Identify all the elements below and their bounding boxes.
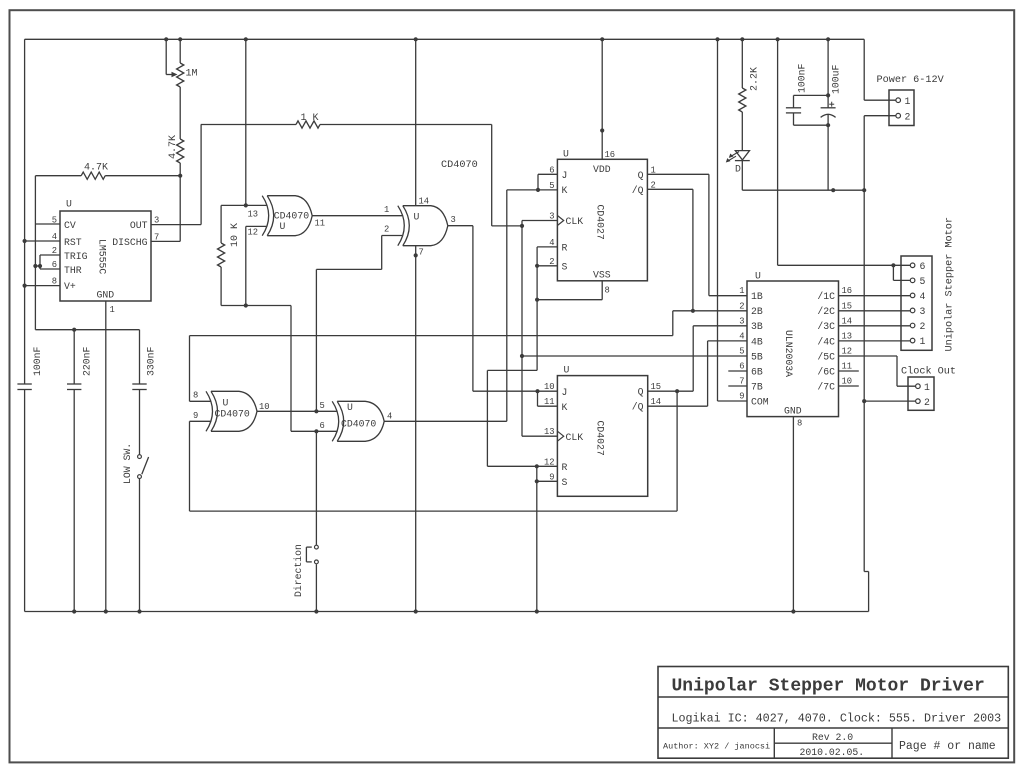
svg-text:5: 5 bbox=[320, 401, 325, 411]
svg-text:9: 9 bbox=[549, 472, 554, 482]
svg-text:1: 1 bbox=[739, 286, 744, 296]
svg-text:8: 8 bbox=[605, 286, 610, 296]
svg-text:COM: COM bbox=[751, 396, 769, 407]
svg-text:14: 14 bbox=[419, 197, 430, 207]
svg-text:6: 6 bbox=[320, 421, 325, 431]
svg-text:CD4027: CD4027 bbox=[595, 205, 606, 240]
svg-text:1: 1 bbox=[905, 96, 911, 107]
svg-text:2: 2 bbox=[739, 301, 744, 311]
svg-text:4: 4 bbox=[920, 291, 926, 302]
svg-text:Logikai IC: 4027, 4070. Clock:: Logikai IC: 4027, 4070. Clock: 555. Driv… bbox=[672, 712, 1002, 726]
svg-text:CD4070: CD4070 bbox=[441, 160, 478, 171]
svg-text:14: 14 bbox=[842, 316, 853, 326]
svg-text:Power 6-12V: Power 6-12V bbox=[877, 75, 945, 86]
svg-text:Unipolar Stepper Motor: Unipolar Stepper Motor bbox=[944, 217, 956, 352]
svg-text:RST: RST bbox=[64, 237, 82, 248]
svg-text:3: 3 bbox=[154, 216, 159, 226]
svg-text:/7C: /7C bbox=[817, 381, 835, 392]
svg-text:Clock Out: Clock Out bbox=[901, 366, 956, 378]
svg-text:4: 4 bbox=[739, 331, 744, 341]
svg-text:/Q: /Q bbox=[632, 402, 644, 413]
svg-text:4B: 4B bbox=[751, 336, 763, 347]
svg-text:GND: GND bbox=[784, 406, 802, 417]
svg-text:D: D bbox=[735, 164, 741, 175]
svg-text:7B: 7B bbox=[751, 381, 763, 392]
svg-text:1M: 1M bbox=[186, 69, 198, 80]
svg-text:10: 10 bbox=[842, 377, 853, 387]
svg-text:12: 12 bbox=[842, 347, 853, 357]
svg-text:CLK: CLK bbox=[566, 432, 584, 443]
svg-text:15: 15 bbox=[842, 301, 853, 311]
svg-text:4: 4 bbox=[387, 412, 392, 422]
svg-text:1: 1 bbox=[110, 305, 115, 315]
svg-text:Rev 2.0: Rev 2.0 bbox=[812, 732, 853, 743]
svg-text:10: 10 bbox=[259, 402, 270, 412]
svg-text:9: 9 bbox=[739, 392, 744, 402]
svg-text:CD4027: CD4027 bbox=[595, 421, 606, 456]
svg-text:GND: GND bbox=[97, 290, 115, 301]
svg-text:6: 6 bbox=[549, 165, 554, 175]
svg-text:CLK: CLK bbox=[566, 216, 584, 227]
svg-text:S: S bbox=[562, 477, 568, 488]
svg-text:/5C: /5C bbox=[817, 351, 835, 362]
svg-text:U: U bbox=[755, 271, 761, 282]
svg-text:Direction: Direction bbox=[293, 544, 304, 597]
svg-text:K: K bbox=[562, 185, 568, 196]
svg-text:Q: Q bbox=[638, 170, 644, 181]
svg-text:2: 2 bbox=[905, 112, 911, 123]
svg-text:5: 5 bbox=[549, 181, 554, 191]
svg-text:5: 5 bbox=[52, 216, 57, 226]
svg-text:100nF: 100nF bbox=[797, 63, 808, 93]
svg-text:CV: CV bbox=[64, 220, 76, 231]
svg-text:K: K bbox=[562, 402, 568, 413]
svg-text:8: 8 bbox=[193, 391, 198, 401]
svg-text:6: 6 bbox=[920, 261, 926, 272]
svg-text:U: U bbox=[223, 398, 229, 409]
svg-text:10 K: 10 K bbox=[230, 223, 241, 247]
svg-text:2.2K: 2.2K bbox=[750, 67, 761, 91]
svg-text:Unipolar Stepper Motor Driver: Unipolar Stepper Motor Driver bbox=[672, 677, 985, 697]
svg-text:9: 9 bbox=[193, 411, 198, 421]
svg-text:J: J bbox=[562, 387, 568, 398]
svg-text:OUT: OUT bbox=[130, 220, 148, 231]
svg-text:J: J bbox=[562, 170, 568, 181]
svg-text:6: 6 bbox=[739, 362, 744, 372]
svg-text:U: U bbox=[564, 365, 570, 376]
svg-text:5: 5 bbox=[920, 276, 926, 287]
svg-text:/3C: /3C bbox=[817, 321, 835, 332]
svg-text:2: 2 bbox=[651, 180, 656, 190]
svg-text:13: 13 bbox=[842, 331, 853, 341]
svg-text:100uF: 100uF bbox=[831, 64, 842, 94]
svg-text:2: 2 bbox=[384, 225, 389, 235]
svg-text:7: 7 bbox=[739, 377, 744, 387]
svg-text:6: 6 bbox=[52, 260, 57, 270]
svg-text:4.7K: 4.7K bbox=[84, 163, 108, 174]
svg-text:2: 2 bbox=[924, 397, 930, 408]
svg-text:16: 16 bbox=[842, 286, 853, 296]
svg-text:2: 2 bbox=[52, 246, 57, 256]
svg-text:/6C: /6C bbox=[817, 366, 835, 377]
svg-text:/Q: /Q bbox=[632, 185, 644, 196]
svg-text:Q: Q bbox=[638, 387, 644, 398]
svg-text:/1C: /1C bbox=[817, 291, 835, 302]
svg-text:13: 13 bbox=[248, 210, 259, 220]
svg-text:11: 11 bbox=[544, 397, 555, 407]
svg-text:LOW SW.: LOW SW. bbox=[122, 443, 133, 484]
svg-text:6B: 6B bbox=[751, 366, 763, 377]
svg-text:Page # or name: Page # or name bbox=[899, 740, 996, 753]
svg-text:1 K: 1 K bbox=[301, 113, 319, 124]
svg-text:15: 15 bbox=[651, 382, 662, 392]
svg-text:8: 8 bbox=[52, 277, 57, 287]
svg-text:3: 3 bbox=[739, 316, 744, 326]
svg-text:1: 1 bbox=[920, 336, 926, 347]
svg-text:Author: XY2 / janocsi: Author: XY2 / janocsi bbox=[663, 742, 770, 752]
svg-text:U: U bbox=[347, 402, 353, 413]
svg-text:7: 7 bbox=[419, 248, 424, 258]
svg-text:5B: 5B bbox=[751, 351, 763, 362]
svg-text:THR: THR bbox=[64, 265, 82, 276]
svg-text:V+: V+ bbox=[64, 281, 76, 292]
svg-text:1: 1 bbox=[924, 382, 930, 393]
svg-text:16: 16 bbox=[605, 150, 616, 160]
svg-text:330nF: 330nF bbox=[146, 346, 157, 376]
svg-text:DISCHG: DISCHG bbox=[112, 237, 147, 248]
svg-text:/4C: /4C bbox=[817, 336, 835, 347]
svg-text:3: 3 bbox=[920, 306, 926, 317]
svg-text:LM555C: LM555C bbox=[97, 239, 108, 274]
svg-text:R: R bbox=[562, 243, 568, 254]
svg-text:14: 14 bbox=[651, 397, 662, 407]
svg-text:CD4070: CD4070 bbox=[215, 409, 250, 420]
svg-text:7: 7 bbox=[154, 233, 159, 243]
svg-text:2: 2 bbox=[549, 257, 554, 267]
svg-text:11: 11 bbox=[842, 362, 853, 372]
svg-text:1: 1 bbox=[651, 165, 656, 175]
svg-text:220nF: 220nF bbox=[82, 346, 93, 376]
svg-text:U: U bbox=[66, 199, 72, 210]
svg-text:U: U bbox=[414, 212, 420, 223]
svg-text:3B: 3B bbox=[751, 321, 763, 332]
svg-text:VDD: VDD bbox=[593, 164, 611, 175]
svg-text:1: 1 bbox=[384, 205, 389, 215]
svg-text:2: 2 bbox=[920, 321, 926, 332]
svg-text:1B: 1B bbox=[751, 291, 763, 302]
svg-text:12: 12 bbox=[248, 228, 259, 238]
svg-text:11: 11 bbox=[315, 219, 326, 229]
svg-text:R: R bbox=[562, 462, 568, 473]
svg-text:U: U bbox=[280, 221, 286, 232]
svg-text:13: 13 bbox=[544, 427, 555, 437]
svg-text:CD4070: CD4070 bbox=[341, 419, 376, 430]
svg-text:VSS: VSS bbox=[593, 270, 611, 281]
svg-text:3: 3 bbox=[451, 215, 456, 225]
svg-text:12: 12 bbox=[544, 457, 555, 467]
svg-text:8: 8 bbox=[797, 419, 802, 429]
svg-text:3: 3 bbox=[549, 212, 554, 222]
svg-text:2B: 2B bbox=[751, 306, 763, 317]
svg-text:/2C: /2C bbox=[817, 306, 835, 317]
svg-text:2010.02.05.: 2010.02.05. bbox=[800, 747, 865, 758]
svg-text:S: S bbox=[562, 262, 568, 273]
svg-text:TRIG: TRIG bbox=[64, 251, 88, 262]
svg-text:5: 5 bbox=[739, 347, 744, 357]
svg-text:100nF: 100nF bbox=[32, 346, 43, 376]
svg-text:4: 4 bbox=[52, 232, 57, 242]
svg-text:4.7K: 4.7K bbox=[168, 135, 179, 159]
svg-text:ULN2003A: ULN2003A bbox=[783, 330, 794, 377]
svg-text:4: 4 bbox=[549, 238, 554, 248]
svg-text:10: 10 bbox=[544, 382, 555, 392]
svg-text:U: U bbox=[563, 149, 569, 160]
